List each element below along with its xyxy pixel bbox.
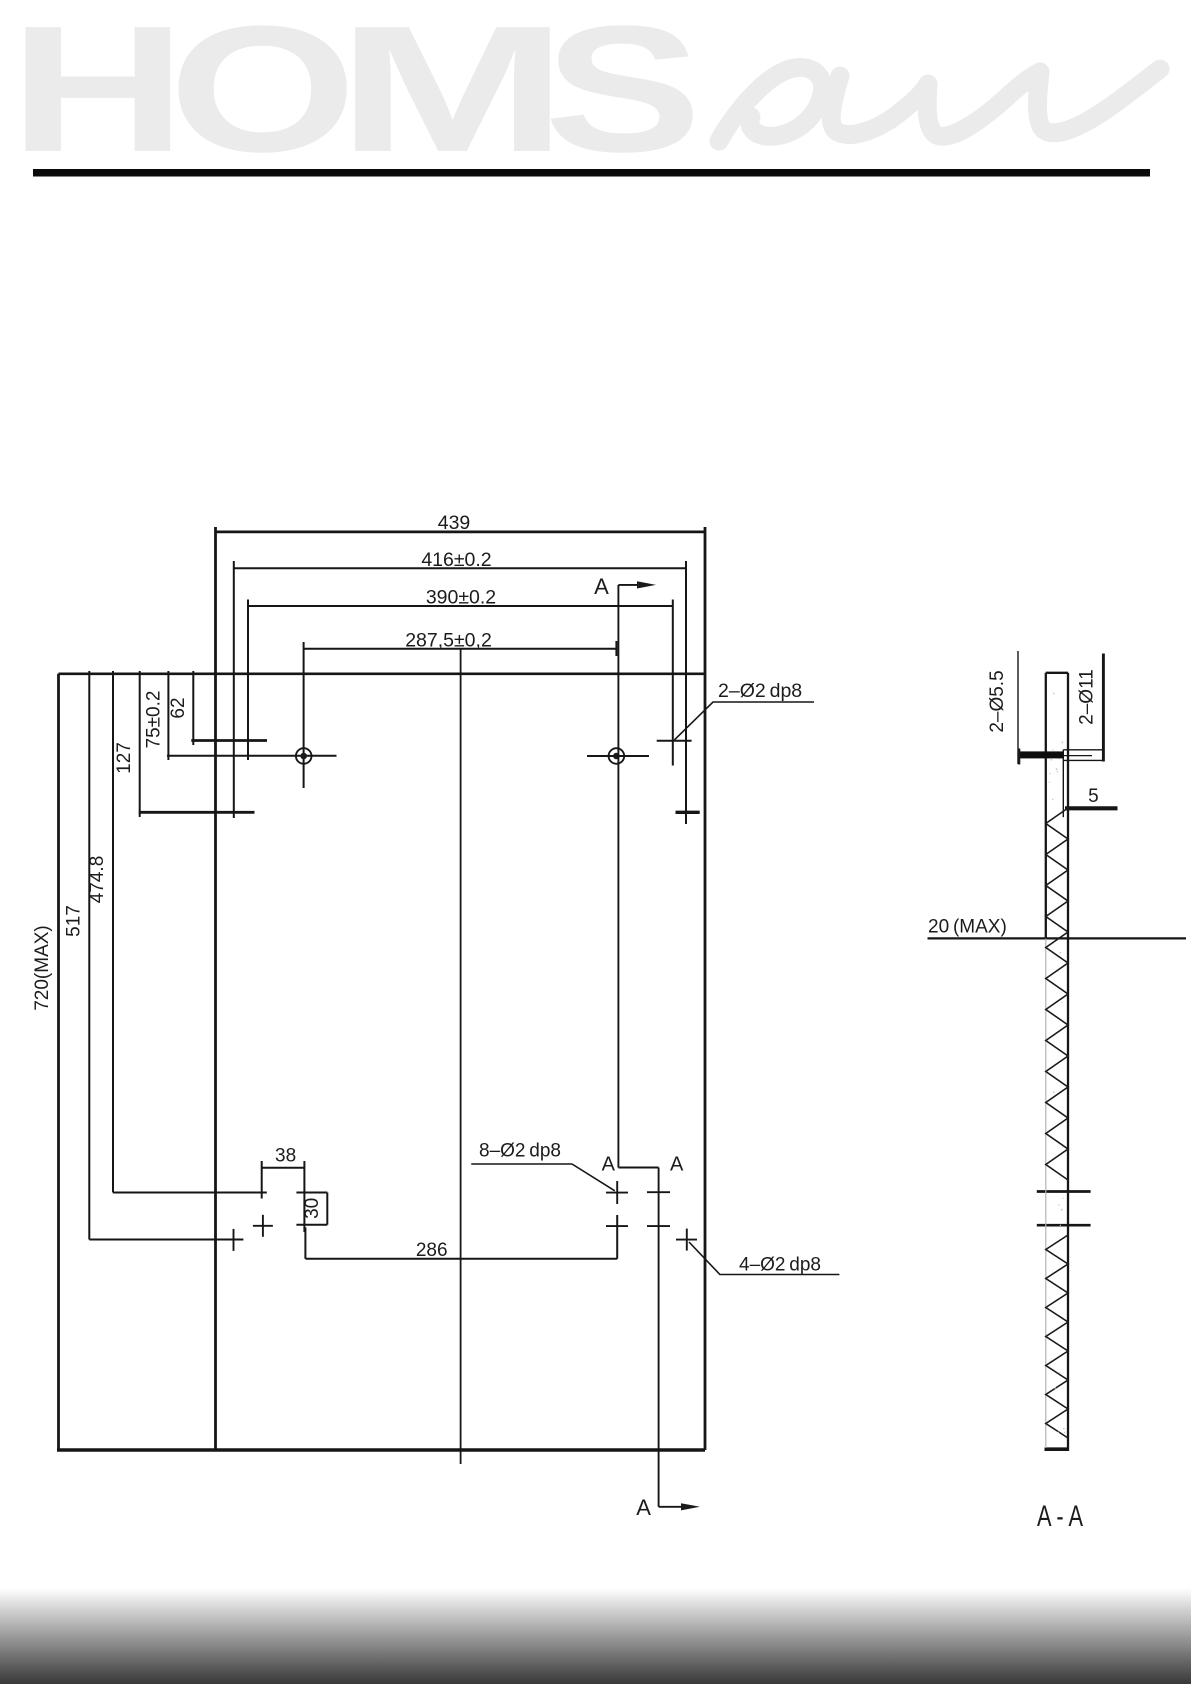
svg-text:2–Ø11: 2–Ø11: [1077, 669, 1098, 725]
svg-text:H: H: [9, 0, 187, 189]
section bar left edge black: [1045, 673, 1047, 939]
appliance max outline top edge: [59, 672, 706, 675]
svg-text:8–Ø2 dp8: 8–Ø2 dp8: [479, 1140, 561, 1161]
dim 38 line: [262, 1167, 305, 1169]
svg-text:4–Ø2 dp8: 4–Ø2 dp8: [739, 1255, 821, 1276]
section bar left edge gray lower: [1045, 939, 1047, 1448]
dim 517 line: [88, 671, 90, 1240]
dim 390 right extension: [672, 600, 674, 766]
svg-text:2–Ø5.5: 2–Ø5.5: [987, 670, 1008, 732]
svg-text:127: 127: [114, 742, 135, 774]
dim 62 line: [192, 671, 194, 745]
5 dim thick bar: [1065, 806, 1118, 810]
section bar bottom cap: [1045, 1447, 1070, 1451]
leader 8-phi2 diagonal: [572, 1164, 615, 1191]
section hole tick upper: [1037, 1190, 1091, 1193]
dim 287.5 right end tick: [615, 641, 617, 656]
dim 287.5 left extension: [303, 642, 305, 788]
dim 286 left extension: [304, 1227, 306, 1258]
svg-text:286: 286: [416, 1240, 448, 1261]
section cut line upper: [617, 585, 619, 1168]
dim 127 line: [139, 671, 141, 817]
svg-text:62: 62: [168, 697, 189, 718]
bracket solid bar: [1019, 751, 1063, 758]
dim 474.8 bottom reference: [113, 1192, 267, 1194]
section hole tick lower: [1037, 1224, 1091, 1227]
appliance max outline left edge: [57, 674, 60, 1450]
dim 286 right extension: [616, 1215, 618, 1259]
svg-text:20 (MAX): 20 (MAX): [928, 917, 1007, 938]
section cut jog: [618, 1167, 658, 1169]
section cut line lower: [658, 1168, 660, 1507]
dim 30 box left: [303, 1161, 305, 1232]
leader 8-phi2 underline: [471, 1163, 572, 1165]
logo air script: [719, 68, 1160, 141]
dim 75 line: [167, 671, 169, 760]
hole cross 4-phi2 target: [676, 1229, 697, 1251]
svg-text:439: 439: [438, 512, 471, 534]
section bar right edge: [1067, 673, 1069, 1451]
svg-text:2–Ø2 dp8: 2–Ø2 dp8: [718, 680, 802, 702]
svg-text:O: O: [169, 0, 357, 190]
section arrow head bottom: [681, 1503, 700, 1510]
header rule: [33, 169, 1150, 177]
vertical center line: [460, 648, 462, 1464]
2-phi11 extension: [1102, 654, 1105, 762]
dim 127 bottom reference: [139, 811, 255, 814]
svg-text:38: 38: [275, 1146, 296, 1167]
washer mid line: [1063, 755, 1092, 757]
dim 517 bottom reference: [89, 1239, 243, 1241]
section bar top cap: [1046, 672, 1068, 674]
svg-text:S: S: [544, 0, 702, 189]
2-phi5.5 extension: [1017, 651, 1019, 764]
svg-text:517: 517: [64, 905, 85, 937]
dim 416 left extension: [233, 561, 235, 818]
hole top-right centerline: [587, 755, 649, 757]
section arrow head top: [637, 581, 656, 588]
section line tick row1: [647, 1191, 670, 1193]
logo HOMS wordmark: [9, 0, 702, 190]
svg-text:390±0.2: 390±0.2: [426, 587, 496, 609]
svg-text:720(MAX): 720(MAX): [32, 925, 53, 1011]
dim 30 box bottom: [296, 1224, 327, 1226]
hole centerline left (75 reference): [167, 755, 337, 757]
dim 390 left extension: [247, 600, 249, 761]
leader 2-phi2: [675, 702, 815, 740]
dim 416 right extension: [685, 561, 687, 824]
section arrow bottom: [659, 1506, 684, 1508]
glass hatch zigzag lower: [1046, 1235, 1068, 1438]
washer bottom line: [1063, 759, 1103, 761]
20 max line: [928, 937, 1187, 939]
dim 30 box top: [296, 1192, 327, 1194]
bottom edge: [57, 1448, 705, 1452]
section arrow top: [618, 584, 640, 586]
dim 390 line: [248, 605, 673, 607]
svg-text:A - A: A - A: [1037, 1500, 1083, 1533]
section line tick row2: [647, 1225, 670, 1227]
hole cross 517 end: [233, 1229, 235, 1251]
dim 38 left extension: [261, 1161, 263, 1199]
svg-text:A: A: [636, 1495, 651, 1520]
svg-text:A: A: [670, 1154, 684, 1176]
washer top line: [1063, 749, 1103, 751]
svg-text:416±0.2: 416±0.2: [421, 549, 491, 571]
svg-text:287,5±0,2: 287,5±0,2: [405, 629, 492, 651]
glass speckle texture: [1049, 693, 1066, 1434]
svg-text:75±0.2: 75±0.2: [144, 691, 165, 749]
svg-text:A: A: [594, 574, 609, 599]
dim 287.5 line: [304, 648, 617, 650]
hole top-right circle: [609, 748, 625, 764]
dim 474.8 line: [112, 671, 114, 1193]
svg-text:30: 30: [302, 1198, 323, 1219]
dim 30 box right: [326, 1193, 328, 1225]
svg-text:A: A: [602, 1154, 616, 1176]
hole cross right row1: [606, 1181, 628, 1204]
dim 286 line: [305, 1258, 617, 1260]
glass hatch zigzag upper: [1046, 808, 1068, 1180]
leader 4-phi2: [689, 1242, 839, 1275]
svg-text:474.8: 474.8: [87, 856, 108, 904]
hole top-left circle: [296, 748, 312, 764]
glass inner edge: [1062, 750, 1064, 817]
dim 416 line: [234, 567, 686, 569]
hole cross left mid: [253, 1215, 273, 1237]
panel outline rectangle 439 wide: [216, 527, 706, 1450]
416 extension heavy cross: [676, 811, 700, 814]
2-phi2 target tick: [657, 740, 692, 742]
svg-text:M: M: [337, 0, 569, 189]
dim 62 bottom reference: [191, 739, 267, 742]
bracket end tick: [1018, 749, 1020, 765]
hole cross right row2: [606, 1225, 628, 1227]
svg-text:5: 5: [1088, 786, 1099, 807]
